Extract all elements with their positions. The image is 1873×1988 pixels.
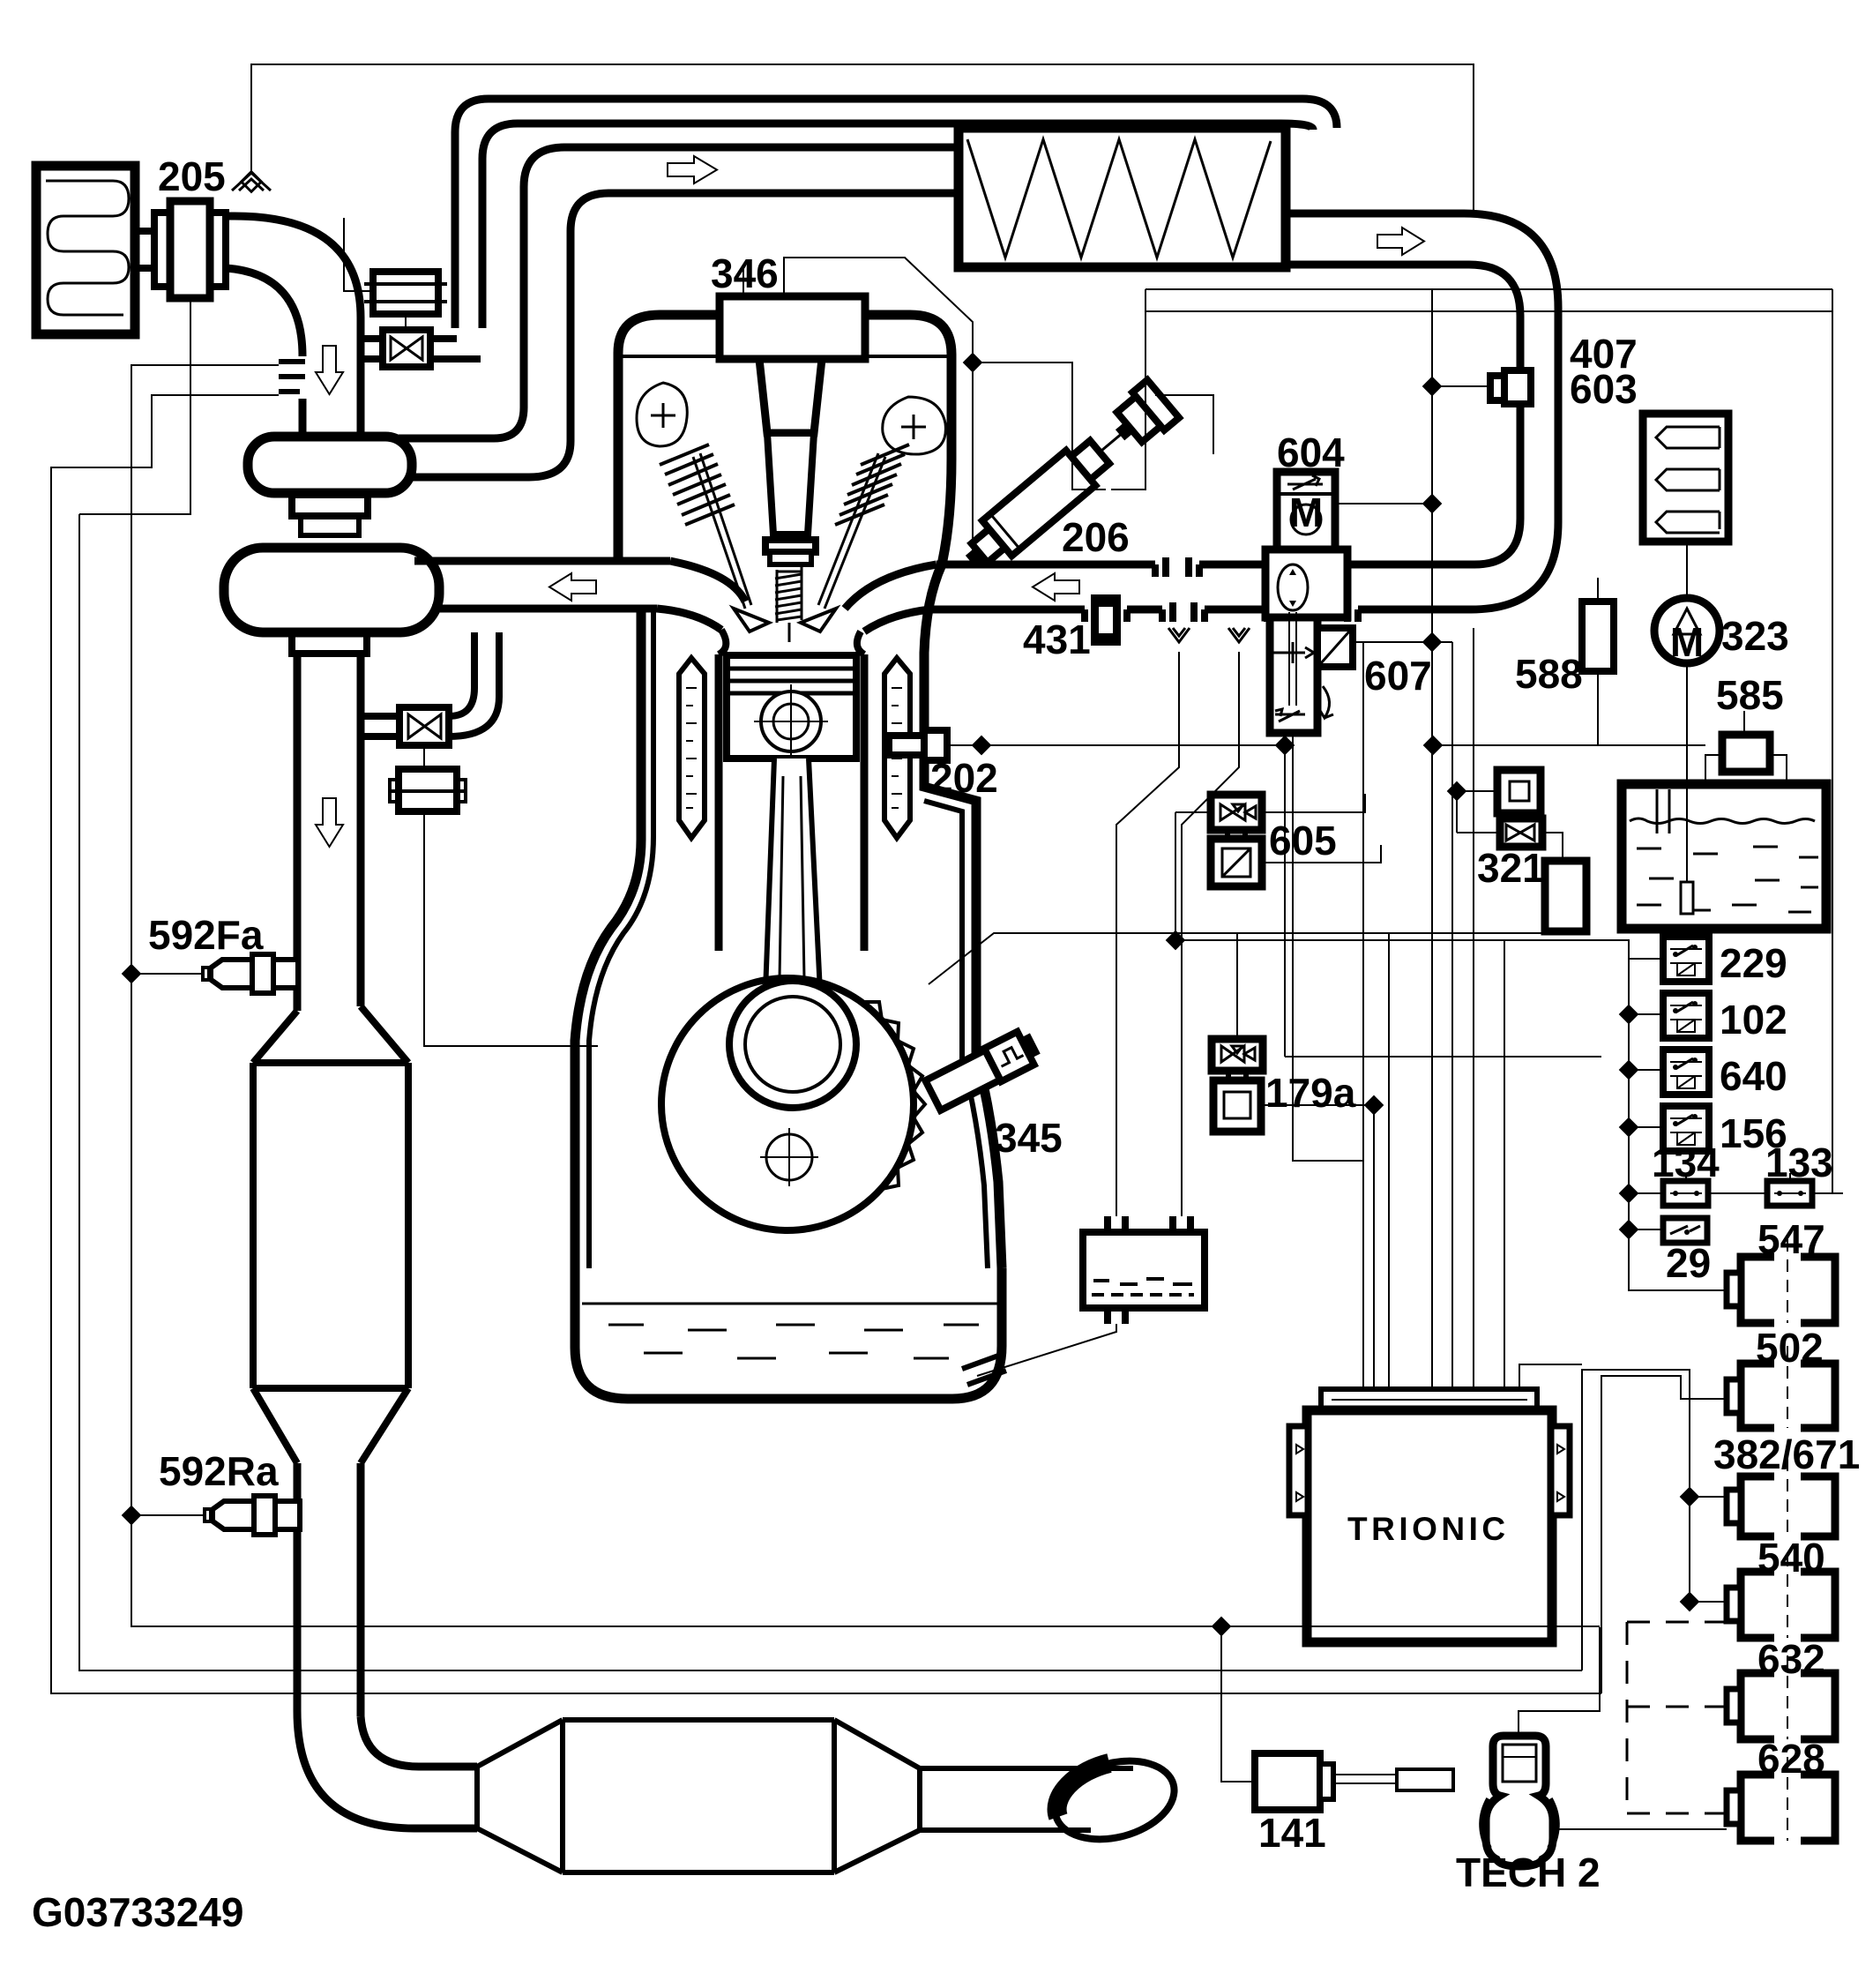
intake pipe top wall bbox=[936, 561, 1155, 569]
connector 382/671 bbox=[1727, 1459, 1835, 1542]
TRIONIC ECU bbox=[1289, 1389, 1570, 1642]
svg-text:141: 141 bbox=[1258, 1810, 1326, 1856]
IC outlet pipe outer wall bbox=[1286, 213, 1558, 609]
svg-text:179a: 179a bbox=[1265, 1070, 1356, 1116]
relay 102 bbox=[1663, 993, 1709, 1038]
muffler inlet cone bbox=[477, 1720, 563, 1872]
179a lower box bbox=[1213, 1080, 1261, 1132]
rear oxygen sensor 592Ra bbox=[275, 1501, 300, 1529]
179a wire up bbox=[1236, 933, 1238, 1039]
exhaust manifold pipe from head to turbine bbox=[414, 557, 670, 565]
relay 156 bbox=[1663, 1106, 1709, 1151]
left valve stem bbox=[693, 453, 751, 609]
321 stem bbox=[1516, 813, 1521, 818]
oil surface bbox=[582, 1303, 1005, 1305]
svg-text:592Ra: 592Ra bbox=[159, 1448, 279, 1494]
svg-text:TRIONIC: TRIONIC bbox=[1347, 1511, 1510, 1547]
tank inlet stub bbox=[1657, 789, 1669, 833]
throttle lower housing bbox=[1270, 617, 1317, 733]
wire 321 left bbox=[1457, 790, 1497, 792]
605 stem bbox=[1228, 830, 1245, 839]
piston bbox=[727, 655, 856, 759]
cylinder block inner right bbox=[924, 801, 988, 1268]
oil pan bbox=[575, 1268, 1002, 1399]
wire between fuses bbox=[1708, 1192, 1767, 1194]
down arrow in intake pipe bbox=[316, 346, 343, 394]
592Ra wire bbox=[131, 1514, 205, 1516]
throttle plate oval bbox=[1278, 564, 1308, 610]
wastegate valve bowtie bbox=[408, 714, 441, 738]
svg-text:640: 640 bbox=[1720, 1053, 1787, 1099]
big end bbox=[729, 981, 856, 1108]
svg-text:345: 345 bbox=[995, 1115, 1063, 1161]
svg-text:M: M bbox=[1289, 490, 1323, 535]
compressor bypass valve pipe bbox=[361, 335, 383, 342]
141 key shaft bbox=[1333, 1774, 1453, 1775]
604 solenoid symbol bbox=[1287, 475, 1323, 490]
pipe MAF elbow down (inner wall) bbox=[226, 268, 302, 356]
wire coil signals to right edge bbox=[1145, 288, 1832, 290]
cylinder block outer left bbox=[575, 609, 641, 1268]
boost pressure valve 179a upper bbox=[1212, 1039, 1263, 1071]
spark plug hex/seat bbox=[765, 540, 816, 552]
svg-text:588: 588 bbox=[1515, 651, 1583, 697]
bypass valve right pipe to pipe A bbox=[430, 335, 457, 342]
svg-text:G03733249: G03733249 bbox=[32, 1889, 243, 1935]
turbo compressor bbox=[248, 437, 412, 493]
MAF sensor 205 left flange bbox=[154, 213, 170, 287]
tailpipe down to rear bbox=[294, 1463, 302, 1711]
connector column bbox=[1627, 1239, 1835, 1846]
EVAP pump 323 bbox=[1654, 598, 1720, 663]
fuse 134 bbox=[1663, 1181, 1708, 1206]
crank center bbox=[766, 1134, 812, 1180]
oil trap wires up to intake bbox=[1116, 652, 1179, 1216]
purge valve 605 lower bbox=[1211, 839, 1262, 886]
EVAP valve 321 lower box bbox=[1500, 818, 1542, 847]
ECU left ear bbox=[1289, 1426, 1308, 1515]
TECH2 wire up bbox=[1519, 1627, 1600, 1739]
oil pressure wire from block to harness row bbox=[929, 933, 1285, 984]
relay feed wire bbox=[1629, 958, 1663, 960]
592Fa wire bbox=[131, 973, 203, 975]
catalytic converter body bbox=[253, 1063, 408, 1463]
head gasket line bbox=[623, 355, 950, 358]
right arrow in IC outlet pipe bbox=[1377, 228, 1424, 255]
air filter box 205 area bbox=[36, 64, 1474, 334]
fuel surface bbox=[1630, 818, 1815, 824]
svg-text:605: 605 bbox=[1269, 818, 1337, 863]
intercooler zigzag core bbox=[967, 139, 1271, 258]
compressor outlet pipe (pipe B inner wall) bbox=[407, 193, 963, 477]
IC outlet pipe inner wall bbox=[1286, 265, 1520, 564]
svg-text:229: 229 bbox=[1720, 940, 1787, 986]
oil trap drain wire bbox=[977, 1324, 1116, 1376]
bypass valve bowtie bbox=[391, 337, 422, 360]
idle air control valve 604 box bbox=[1277, 472, 1335, 549]
crank position sensor 345 bbox=[924, 1027, 1043, 1111]
connector 547 bbox=[1727, 1239, 1835, 1328]
ECU right ear bbox=[1551, 1426, 1570, 1515]
wire second right vertical bbox=[1601, 1376, 1727, 1693]
svg-text:540: 540 bbox=[1757, 1535, 1825, 1581]
connector 632 bbox=[1727, 1655, 1835, 1745]
svg-text:502: 502 bbox=[1756, 1325, 1824, 1371]
fuel dashes bbox=[1637, 847, 1818, 912]
svg-text:607: 607 bbox=[1364, 653, 1432, 699]
left valve spring bbox=[660, 445, 735, 525]
179a wire right bbox=[1261, 1104, 1374, 1106]
svg-text:102: 102 bbox=[1720, 997, 1787, 1043]
605 wires bbox=[1262, 794, 1365, 812]
compressor outlet pipe up to intercooler (pipe B outer wall) bbox=[399, 147, 963, 438]
wire mesh tap lower staircase bbox=[51, 395, 1601, 1693]
throttle shaft bbox=[1288, 612, 1290, 706]
canister wire down to valve bbox=[405, 314, 407, 330]
muffler body bbox=[563, 1720, 834, 1872]
wire 202 down to harness row bbox=[1284, 745, 1286, 1057]
right valve stem bbox=[818, 453, 885, 609]
pipe MAF elbow down (outer wall) bbox=[226, 216, 361, 438]
exhaust system bbox=[122, 654, 1183, 1872]
left water jacket slot bbox=[679, 658, 705, 838]
left valve head bbox=[734, 609, 769, 632]
ignition coil 346 bbox=[720, 296, 865, 359]
canister wire left bbox=[344, 218, 373, 291]
oil trap box bbox=[1083, 1232, 1205, 1308]
exhaust tip bbox=[1046, 1749, 1183, 1852]
svg-text:628: 628 bbox=[1757, 1736, 1825, 1782]
relay 640 bbox=[1663, 1050, 1709, 1095]
throttle linkage symbol bbox=[1273, 642, 1314, 663]
wire from actuator down bbox=[424, 811, 598, 1046]
coil wire right bbox=[784, 258, 973, 562]
ring gear teeth bbox=[862, 1002, 925, 1189]
throttle bottom valve symbol bbox=[1275, 709, 1305, 721]
muffler outlet cone bbox=[834, 1720, 920, 1872]
pressure sensor 588 bbox=[1582, 602, 1614, 671]
wire right vertical from bottom rail to 502 bus bbox=[1582, 1370, 1690, 1670]
right side EVAP components bbox=[1175, 414, 1826, 1132]
wire from wastegate valve to actuator bbox=[423, 745, 425, 769]
flywheel circle bbox=[661, 978, 914, 1230]
MAF sensor 205 right flange bbox=[210, 213, 226, 287]
MAF sensor 205 body bbox=[170, 201, 210, 298]
flex hose ticks top bbox=[1155, 557, 1199, 577]
coil leader line bbox=[742, 265, 744, 296]
EVAP vapor cooler box bbox=[1643, 414, 1728, 542]
right valve head bbox=[801, 609, 836, 632]
dashed harness box bbox=[1627, 1622, 1727, 1813]
svg-text:TECH 2: TECH 2 bbox=[1456, 1850, 1601, 1895]
cooler coil chevrons bbox=[1656, 427, 1720, 448]
cylinder block outer right bbox=[924, 564, 1002, 1268]
wire right edge vertical bbox=[1832, 289, 1833, 1193]
bypass pipe A left vertical bbox=[455, 99, 1337, 328]
wastegate valve body bbox=[399, 707, 449, 745]
wastegate passage right elbow up to exhaust inlet bbox=[449, 632, 474, 716]
ECU box bbox=[1307, 1410, 1552, 1642]
flex coupling ticks on intake pipe bbox=[279, 359, 305, 364]
turbine lower flange bbox=[292, 632, 367, 654]
svg-text:604: 604 bbox=[1277, 430, 1345, 475]
switch 29 bbox=[1663, 1218, 1707, 1243]
TECH 2 scan tool and ignition switch 141 bbox=[1221, 1626, 1727, 1866]
heater 407/603 on pipe bbox=[1490, 376, 1515, 400]
connecting rod bbox=[765, 759, 820, 991]
TECH2 body bbox=[1486, 1736, 1553, 1866]
svg-text:431: 431 bbox=[1023, 617, 1091, 662]
purge valve 605 upper bbox=[1211, 795, 1262, 830]
wastegate actuator canister bbox=[399, 769, 457, 811]
intake manifold horizontal pipe bbox=[930, 380, 1446, 1161]
wire 604 to bundle bbox=[1335, 503, 1432, 504]
svg-text:321: 321 bbox=[1477, 845, 1545, 891]
turbo center flange bbox=[292, 495, 368, 516]
ignition switch 141 body bbox=[1255, 1753, 1320, 1810]
intercooler box bbox=[959, 128, 1286, 267]
intercooler bbox=[959, 128, 1558, 609]
right valve spring bbox=[835, 445, 909, 525]
oil dashes bbox=[608, 1325, 979, 1358]
exhaust port runner bbox=[670, 561, 745, 602]
duct filter to MAF bbox=[135, 228, 156, 235]
wire 321 to canister bbox=[1542, 833, 1563, 861]
engine assembly bbox=[414, 258, 1295, 1399]
fuel tank bbox=[1622, 784, 1826, 929]
fuel float bbox=[1681, 882, 1693, 914]
wastegate passage around turbine bbox=[361, 713, 399, 720]
wire from heater left to junction bbox=[1436, 385, 1490, 387]
svg-text:29: 29 bbox=[1666, 1240, 1711, 1286]
fuel injector 206 bbox=[954, 380, 1179, 580]
cylinder bore walls bbox=[715, 654, 723, 951]
wire from check valve up to top rail bbox=[251, 64, 1474, 210]
svg-text:346: 346 bbox=[711, 250, 779, 296]
compressor bypass valve body bbox=[383, 330, 430, 367]
TECH2 side grips bbox=[1482, 1799, 1556, 1849]
combustion chamber walls bbox=[719, 630, 726, 654]
svg-text:382/671: 382/671 bbox=[1713, 1431, 1860, 1477]
spark plug upper tapered body bbox=[759, 359, 822, 433]
vapor filter canister bbox=[1545, 861, 1586, 931]
catalytic converter inlet cone bbox=[253, 1006, 408, 1063]
downpipe from turbine bbox=[294, 654, 302, 1011]
relays and fuses bbox=[1619, 937, 1843, 1290]
202 wire right bbox=[947, 744, 1285, 746]
svg-text:202: 202 bbox=[930, 755, 998, 801]
svg-text:205: 205 bbox=[158, 153, 226, 199]
wire 321 junction vertical bbox=[1456, 791, 1458, 833]
signal wire network bbox=[51, 288, 1832, 1693]
left arrow in exhaust pipe bbox=[549, 573, 596, 601]
connector 628 bbox=[1727, 1757, 1835, 1846]
wire left bundle second bbox=[79, 514, 1582, 1670]
wire 29 down to 547 bbox=[1629, 1229, 1727, 1290]
EVAP valve 321 upper box bbox=[1497, 770, 1541, 813]
injector feed line bbox=[1155, 395, 1213, 454]
fuel level sender 585 bbox=[1722, 735, 1770, 772]
wire relay feed row bbox=[1175, 812, 1629, 959]
oil pickup stub bbox=[962, 1355, 1006, 1385]
throttle return spring arc bbox=[1319, 686, 1333, 718]
left arrow in intake pipe bbox=[1033, 573, 1079, 601]
wire EVAP row bbox=[1433, 744, 1705, 746]
left valve cover teardrop bbox=[637, 383, 687, 446]
604 motor circle bbox=[1280, 492, 1332, 496]
wire cooler to pump bbox=[1686, 542, 1688, 598]
throttle body 607 housing bbox=[1265, 549, 1347, 617]
wire mesh tap upper bbox=[131, 365, 1600, 1626]
tailpipe bbox=[920, 1766, 1133, 1771]
cylinder block inner left bbox=[589, 609, 653, 1268]
check valve symbol near 205 bbox=[232, 173, 271, 191]
connector bus wire bbox=[1690, 1398, 1727, 1400]
wire throttle 607 to bundle bbox=[1353, 641, 1452, 643]
wrist pin bbox=[761, 691, 821, 751]
flex hose ticks bottom bbox=[1085, 602, 1127, 622]
svg-text:134: 134 bbox=[1652, 1140, 1720, 1185]
junction on bottom rail bbox=[1212, 1617, 1232, 1637]
wire pump down to tank bbox=[1686, 663, 1688, 884]
elbow to muffler bbox=[297, 1711, 477, 1828]
down check arrows below pipe bbox=[1168, 628, 1190, 642]
bypass pipe A inner wall bbox=[482, 123, 1313, 328]
fuse 133 bbox=[1767, 1181, 1812, 1206]
right arrow in charge pipe bbox=[668, 156, 717, 183]
wire MAF signal down left bundle bbox=[79, 302, 190, 514]
intake pipe bottom wall bbox=[930, 606, 1085, 614]
svg-text:323: 323 bbox=[1721, 613, 1789, 659]
connector 540 bbox=[1727, 1554, 1835, 1643]
relay 229 bbox=[1663, 937, 1709, 982]
turbo turbine bbox=[224, 548, 439, 632]
TECH2 screen bbox=[1503, 1745, 1536, 1782]
svg-text:206: 206 bbox=[1062, 514, 1130, 560]
svg-text:133: 133 bbox=[1765, 1140, 1833, 1185]
svg-text:603: 603 bbox=[1570, 366, 1638, 412]
intake port runner bbox=[845, 564, 936, 609]
141 wire left bbox=[1221, 1626, 1255, 1782]
svg-text:592Fa: 592Fa bbox=[148, 912, 264, 958]
boost control canister above bypass valve bbox=[373, 272, 438, 314]
svg-text:M: M bbox=[1670, 619, 1704, 665]
ECU harness verticals bbox=[1362, 642, 1364, 1389]
down arrow in downpipe bbox=[316, 798, 343, 847]
air filter housing bbox=[36, 166, 135, 334]
svg-text:547: 547 bbox=[1757, 1216, 1825, 1262]
right valve cover teardrop bbox=[883, 397, 946, 454]
ECU top connector plate bbox=[1321, 1389, 1537, 1410]
air filter element (serpentine) bbox=[46, 181, 129, 315]
svg-text:632: 632 bbox=[1757, 1636, 1825, 1682]
connector 502 bbox=[1727, 1346, 1835, 1433]
coolant temp sensor 202 bbox=[924, 730, 947, 760]
front oxygen sensor 592Fa bbox=[273, 960, 298, 988]
spark plug threads bbox=[775, 567, 802, 623]
intake pipe from MAF to turbo compressor bbox=[224, 99, 1337, 1046]
sensor 431 on intake pipe bbox=[1091, 594, 1121, 646]
right water jacket slot bbox=[884, 658, 910, 838]
svg-text:585: 585 bbox=[1716, 672, 1784, 718]
cylinder head outline bbox=[618, 315, 723, 564]
wire lower harness row bbox=[1285, 1056, 1601, 1058]
TPS sensor box bbox=[1317, 628, 1353, 667]
TECH2 wire right to 628 bbox=[1550, 1828, 1727, 1830]
